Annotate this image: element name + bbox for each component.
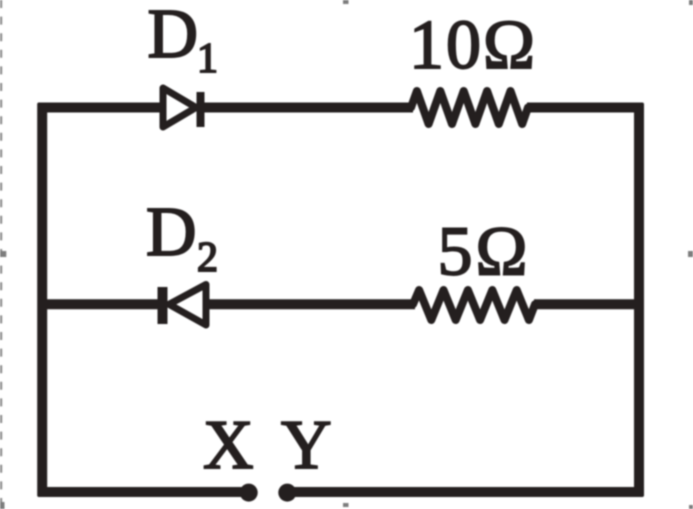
terminal Y dot xyxy=(278,484,296,502)
diode D2 cathode bar xyxy=(158,287,168,324)
svg-text:5Ω: 5Ω xyxy=(438,214,531,291)
wire middle right segment xyxy=(534,299,643,309)
wire bottom right segment xyxy=(287,487,643,497)
diode D1 triangle (anode, pointing right) xyxy=(163,88,196,127)
wire left vertical xyxy=(37,103,47,496)
diode D2 triangle (pointing left) xyxy=(169,285,206,326)
wire middle left segment xyxy=(38,299,160,309)
diode D1 cathode bar xyxy=(197,92,205,127)
svg-text:Y: Y xyxy=(281,407,332,484)
wire middle segment between D2 and resistor xyxy=(207,299,415,309)
resistor 10 ohm zigzag xyxy=(411,91,528,124)
wire top right segment xyxy=(527,103,643,113)
svg-text:X: X xyxy=(203,407,254,484)
svg-text:D: D xyxy=(148,0,199,73)
wire top left segment xyxy=(38,103,163,113)
resistor 5 ohm zigzag xyxy=(413,290,535,320)
terminal X dot xyxy=(240,484,258,502)
svg-text:1: 1 xyxy=(197,36,218,82)
wire bottom left segment xyxy=(38,487,248,497)
svg-text:D: D xyxy=(146,194,197,271)
svg-text:10Ω: 10Ω xyxy=(409,7,537,84)
wire top middle segment xyxy=(203,103,413,113)
wire right vertical xyxy=(634,103,644,496)
svg-text:2: 2 xyxy=(197,235,218,281)
